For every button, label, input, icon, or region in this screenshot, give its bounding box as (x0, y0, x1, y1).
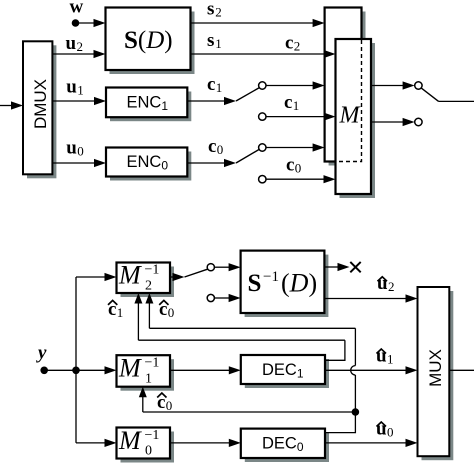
label u0 (66, 138, 84, 159)
wire c0hat riser lower segment (325, 375, 355, 433)
svg-text:M: M (118, 354, 142, 383)
block DEC0 (241, 429, 329, 462)
svg-text:M: M (339, 103, 362, 129)
wire u2 DMUX to S(D) (52, 50, 105, 58)
block Sinv(D) descrambler (241, 251, 329, 317)
svg-text:0: 0 (387, 424, 394, 439)
switch lever r2 (185, 269, 208, 277)
block MUX (418, 287, 454, 460)
block M interleaver front box (336, 39, 376, 198)
wire DMUX input (0, 101, 23, 109)
wire M2inv output to switch (170, 273, 185, 281)
block ENC1 (106, 88, 191, 122)
svg-text:S: S (248, 270, 262, 297)
svg-text:2: 2 (294, 39, 301, 54)
wire c0hat into M1inv (139, 387, 147, 412)
switch lever c0 (236, 149, 259, 163)
wire c0hat horizontal feedback (149, 327, 355, 329)
switch lever output (421, 88, 438, 101)
wire ENC1 output to switch (187, 97, 236, 105)
wire M1inv to DEC1 (170, 366, 241, 374)
label c1hat (108, 299, 123, 320)
label u0hat (376, 418, 394, 439)
wire y to junction (44, 369, 76, 371)
label c0 at lower contact (286, 155, 301, 176)
wire r2 lower contact to Sinv (214, 294, 240, 302)
svg-text:(D): (D) (281, 269, 317, 298)
switch lever c1 (236, 88, 259, 101)
block ENC0 (106, 148, 191, 181)
svg-text:2: 2 (145, 278, 152, 293)
switch contact r2 lower (207, 294, 214, 301)
wire y to M2inv (76, 273, 117, 281)
svg-text:u: u (66, 33, 77, 54)
switch contact output upper (415, 82, 422, 89)
switch contact c0 lower (259, 176, 266, 183)
wire c1 lower contact to front box (266, 113, 336, 121)
svg-text:0: 0 (145, 444, 152, 459)
label u1 (66, 77, 84, 98)
termination X cross (350, 262, 360, 272)
block DEC1 (241, 355, 329, 388)
node y branch junction (72, 367, 80, 375)
svg-text:1: 1 (293, 98, 300, 113)
wire s1/c2 S(D) to front box (191, 50, 336, 58)
svg-text:1: 1 (77, 83, 84, 98)
label c0hat under M2inv (159, 299, 174, 320)
wire u0 DMUX to ENC0 (52, 159, 106, 167)
svg-text:s: s (207, 30, 214, 51)
wire u0hat DEC0 to MUX (325, 439, 418, 447)
node w input terminal (72, 19, 80, 27)
crossover hop over u1hat wire (351, 366, 356, 375)
label u2 (66, 33, 84, 54)
svg-text:2: 2 (215, 5, 222, 20)
label s2 (207, 0, 222, 20)
svg-text:M: M (118, 426, 142, 455)
svg-text:c: c (286, 155, 294, 176)
label c1 at ENC1 output (207, 74, 222, 95)
svg-text:u: u (66, 138, 77, 159)
hidden edge of back box (dashed) (337, 40, 362, 162)
svg-text:1: 1 (117, 305, 124, 320)
svg-text:u: u (66, 77, 77, 98)
svg-text:M: M (118, 261, 142, 290)
label c2 (285, 33, 300, 54)
switch contact c1 upper (259, 82, 266, 89)
node y input terminal (40, 367, 48, 375)
label w (70, 0, 84, 18)
svg-text:c: c (208, 136, 216, 157)
wire u2hat Sinv to MUX (324, 294, 417, 302)
wire c0hat riser upper segment (354, 328, 356, 365)
wire c1hat vertical into M2inv (134, 293, 142, 340)
wire channel output to right edge (439, 100, 474, 102)
svg-text:0: 0 (295, 161, 302, 176)
wire c1 upper contact to back box (266, 81, 325, 89)
wire M output 1 to switch (371, 81, 415, 89)
node c0hat junction (352, 408, 360, 416)
svg-text:1: 1 (216, 80, 223, 95)
label c0 at ENC0 output (208, 136, 223, 157)
wire M0inv to DEC0 (170, 439, 241, 447)
wire y to M0inv (76, 439, 117, 447)
svg-text:0: 0 (166, 398, 173, 413)
switch contact c1 lower (259, 113, 266, 120)
wire c1hat horizontal feedback (138, 339, 345, 341)
label c1 at lower contact (284, 92, 299, 113)
wire c0 lower contact to front box (266, 175, 336, 183)
svg-text:1: 1 (215, 36, 222, 51)
svg-text:DMUX: DMUX (31, 79, 50, 129)
wire y to M1inv (76, 366, 117, 374)
block M2 inverse (117, 261, 175, 298)
svg-text:2: 2 (77, 39, 84, 54)
switch contact r2 upper (207, 264, 214, 271)
block M1 inverse (117, 354, 175, 391)
svg-text:−1: −1 (145, 263, 160, 278)
label u1hat (376, 345, 394, 366)
svg-text:c: c (284, 92, 292, 113)
wire MUX output (449, 369, 474, 371)
svg-text:y: y (36, 343, 47, 364)
wire Sinv output to termination (324, 263, 349, 271)
label c0hat under M1inv (157, 392, 172, 413)
label s1 (207, 30, 222, 51)
block DMUX (23, 41, 56, 178)
wire c0hat vertical into M2inv (145, 293, 153, 328)
wire w to S(D) (76, 19, 106, 27)
block multiplexer back box (325, 8, 366, 166)
svg-text:0: 0 (77, 144, 84, 159)
wire M output 2 to contact (371, 118, 415, 126)
switch contact output lower (415, 118, 422, 125)
block S(D) scrambler (106, 8, 195, 75)
wire s2 S(D) to back box (191, 19, 325, 27)
wire y vertical branch (75, 277, 77, 443)
wire u1 DMUX to ENC1 (52, 97, 106, 105)
svg-text:s: s (207, 0, 214, 20)
svg-text:−1: −1 (145, 428, 160, 443)
wire c0 upper contact to back box (266, 143, 325, 151)
svg-text:c: c (207, 74, 215, 95)
wire ENC0 output to switch (187, 159, 236, 167)
svg-text:0: 0 (168, 305, 175, 320)
wire r2 upper contact to Sinv (214, 263, 240, 271)
svg-text:−1: −1 (263, 269, 279, 285)
label y (36, 343, 47, 364)
svg-text:MUX: MUX (426, 349, 445, 387)
svg-text:2: 2 (388, 279, 395, 294)
switch contact c0 upper (259, 144, 266, 151)
wire c0hat horizontal to M1inv (143, 411, 356, 413)
wire u1hat DEC1 to MUX (325, 366, 418, 374)
svg-text:−1: −1 (145, 356, 160, 371)
wire c1hat riser from DEC1 (325, 340, 345, 360)
svg-text:S(D): S(D) (124, 27, 173, 54)
label u2hat (377, 273, 395, 294)
block M0 inverse (117, 426, 175, 463)
svg-text:c: c (285, 33, 293, 54)
svg-text:0: 0 (217, 142, 224, 157)
svg-text:1: 1 (387, 351, 394, 366)
svg-text:w: w (70, 0, 84, 18)
svg-text:1: 1 (145, 372, 152, 387)
